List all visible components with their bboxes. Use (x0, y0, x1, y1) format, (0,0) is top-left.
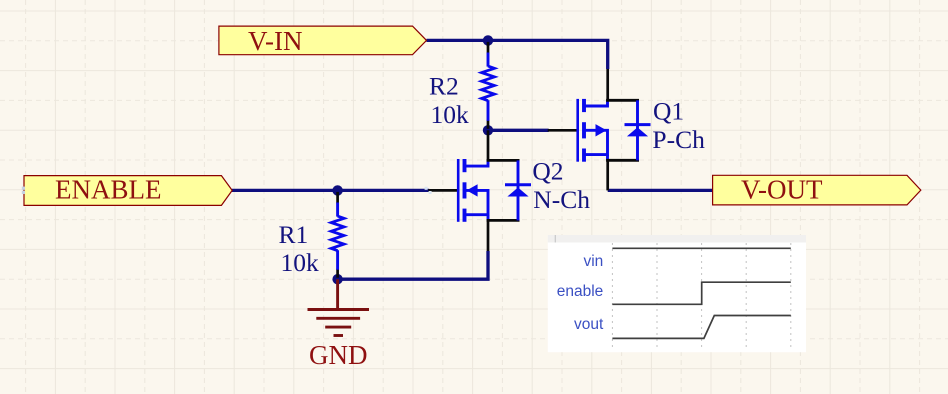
panel dotted grid (612, 243, 790, 348)
junction D (R1 / GND / Q2 source) (332, 274, 342, 284)
wire ENABLE to Q2 gate (232, 189, 429, 192)
gate bar (576, 99, 579, 162)
port V-IN (219, 26, 427, 55)
wire V-IN to top corner and down to Q1 drain pin (427, 40, 608, 69)
junction A (V-IN / R2) (483, 35, 493, 45)
Q1 drain pin (606, 69, 609, 100)
svg-text:Q2: Q2 (532, 157, 563, 186)
top rail (606, 99, 639, 102)
wire Q1 source to V-OUT (608, 189, 713, 192)
power ground GND (308, 279, 370, 335)
svg-text:GND: GND (309, 340, 368, 370)
svg-text:vout: vout (574, 316, 604, 333)
svg-text:10k: 10k (281, 248, 320, 277)
svg-text:V-IN: V-IN (248, 26, 303, 56)
svg-text:vin: vin (583, 253, 603, 270)
waveform vin (612, 247, 790, 249)
junction B (R2 / Q1 gate / Q2 drain) (483, 125, 493, 135)
junction C (ENABLE / R1) (332, 185, 342, 195)
transistor Q2 (N-channel MOSFET) (428, 159, 531, 222)
bottom rail (606, 159, 639, 162)
svg-text:R2: R2 (429, 72, 459, 101)
gate bar (457, 159, 460, 222)
waveform enable (612, 282, 790, 304)
hotspot marker near Q2 gate (425, 187, 432, 194)
port ENABLE (24, 176, 232, 206)
svg-text:10k: 10k (431, 100, 470, 129)
waveform vout (612, 316, 790, 339)
channel bar segments (582, 99, 586, 162)
wire junction B to Q1 gate (488, 129, 549, 132)
svg-text:ENABLE: ENABLE (55, 175, 161, 205)
svg-text:P-Ch: P-Ch (652, 125, 705, 154)
svg-text:Q1: Q1 (653, 97, 684, 126)
body diode (636, 100, 639, 160)
Q1 source pin (606, 160, 609, 190)
drain, body and source stubs (465, 160, 489, 220)
svg-text:N-Ch: N-Ch (533, 185, 590, 214)
gate pin (428, 189, 458, 192)
body diode (517, 160, 520, 220)
port V-OUT (713, 175, 921, 205)
hotspot marker left of ENABLE (22, 187, 25, 194)
drain, body and source stubs (584, 100, 608, 160)
svg-text:V-OUT: V-OUT (741, 175, 823, 205)
channel bar segments (463, 159, 467, 222)
bottom rail (487, 219, 520, 222)
timing diagram panel (548, 235, 806, 352)
Q2 source pin (487, 220, 490, 251)
resistor R1 (331, 192, 344, 278)
P-ch arrow (596, 124, 607, 136)
top rail (487, 159, 520, 162)
wire junction D to Q2 source (338, 251, 488, 279)
resistor R2 (482, 42, 495, 129)
Q2 drain pin (to junction B) (487, 130, 490, 160)
transistor Q1 (P-channel MOSFET) (548, 99, 651, 162)
N-ch arrow (467, 184, 478, 196)
svg-text:enable: enable (557, 283, 604, 300)
gate pin (548, 129, 578, 132)
svg-text:R1: R1 (279, 220, 309, 249)
